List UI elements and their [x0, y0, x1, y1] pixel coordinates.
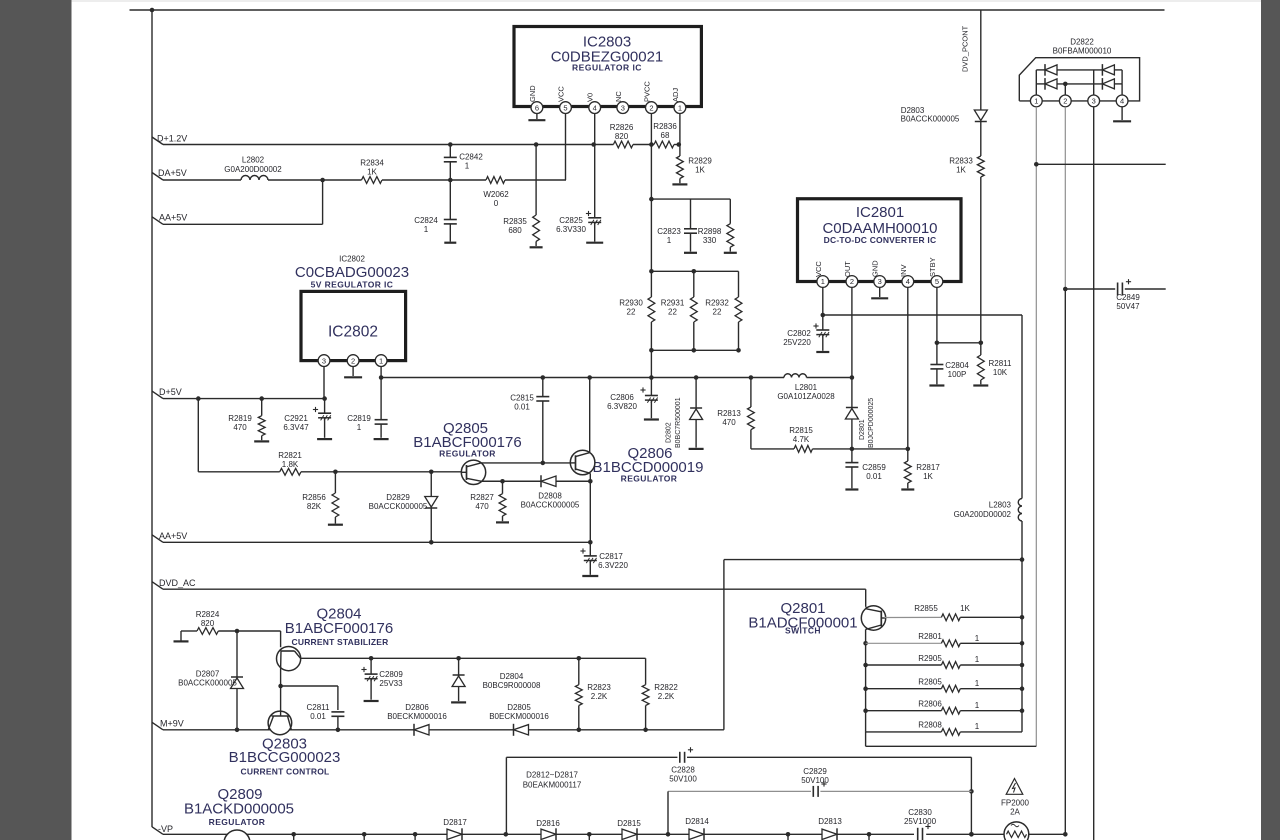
pin 3 IC2803 [617, 102, 629, 114]
svg-text:2.2K: 2.2K [591, 692, 608, 701]
svg-text:C2823: C2823 [657, 227, 681, 236]
svg-text:B0EAKM000117: B0EAKM000117 [523, 781, 582, 790]
diode D2808 [541, 476, 556, 486]
diode D2822-A1 [1045, 65, 1057, 75]
diode D2816 [541, 829, 556, 839]
svg-text:1: 1 [678, 103, 682, 112]
diode D2813 [822, 829, 837, 839]
svg-text:V0: V0 [586, 93, 595, 102]
capacitor C2806 [650, 378, 652, 396]
svg-text:1.8K: 1.8K [282, 460, 299, 469]
svg-text:B0ACCK000005: B0ACCK000005 [521, 501, 580, 510]
svg-text:C2815: C2815 [510, 394, 534, 403]
wire D2812 block right edge [970, 757, 972, 834]
pin 2 IC2801 [846, 276, 858, 288]
svg-text:G0A200D00002: G0A200D00002 [954, 510, 1012, 519]
svg-text:1: 1 [667, 236, 672, 245]
capacitor C2817 [589, 542, 591, 555]
wire IC2803 pin1 ADJ [679, 114, 681, 145]
svg-text:R2826: R2826 [610, 123, 634, 132]
svg-text:25V220: 25V220 [783, 338, 811, 347]
pin 3 D2822 [1088, 95, 1100, 107]
svg-text:C2802: C2802 [787, 329, 811, 338]
svg-text:0.01: 0.01 [310, 712, 326, 721]
svg-text:L2802: L2802 [242, 156, 265, 165]
svg-text:R2819: R2819 [228, 414, 252, 423]
svg-text:50V100: 50V100 [801, 776, 829, 785]
svg-text:CURRENT STABILIZER: CURRENT STABILIZER [292, 637, 389, 647]
svg-text:50V47: 50V47 [1116, 302, 1140, 311]
svg-text:B0JCPD000025: B0JCPD000025 [868, 398, 875, 448]
resistor R2826 [613, 141, 633, 148]
wire Q2805 collector line [481, 462, 570, 464]
wire D2822 pin3 vertical [1093, 107, 1095, 840]
svg-text:VCC: VCC [814, 261, 823, 277]
wire IC2802 pin1 down [380, 367, 382, 378]
fuse FP2000 element [1004, 822, 1029, 840]
pin 3 IC2802 [318, 355, 330, 367]
svg-text:4: 4 [593, 103, 597, 112]
resistor R2819 [261, 399, 263, 416]
svg-text:R2811: R2811 [989, 359, 1013, 368]
svg-text:-VP: -VP [158, 824, 173, 834]
node M+9V [152, 722, 163, 730]
svg-text:1: 1 [975, 679, 980, 688]
svg-text:1K: 1K [695, 166, 705, 175]
svg-text:R2905: R2905 [918, 654, 942, 663]
pin 1 D2822 [1030, 95, 1042, 107]
svg-text:6.3V330: 6.3V330 [556, 225, 586, 234]
wire top horizontal line [130, 9, 1165, 11]
resistor R2808 [866, 731, 942, 733]
svg-text:1: 1 [379, 356, 383, 365]
capacitor C2804 [936, 343, 938, 365]
wire D+5V branch to R2821 [197, 399, 199, 472]
node DVD_AC [152, 582, 163, 590]
svg-text:22: 22 [713, 308, 722, 317]
wire IC2802 pin3 down [323, 367, 325, 399]
svg-text:D2812~D2817: D2812~D2817 [526, 771, 578, 780]
svg-text:2: 2 [850, 277, 854, 286]
svg-text:5: 5 [563, 103, 567, 112]
svg-text:1: 1 [424, 225, 429, 234]
svg-text:CURRENT CONTROL: CURRENT CONTROL [241, 767, 330, 777]
svg-text:C2842: C2842 [459, 153, 483, 162]
svg-text:AA+5V: AA+5V [159, 213, 187, 223]
svg-text:PVCC: PVCC [642, 81, 651, 102]
wire IC2801 pin5 STBY down [936, 287, 938, 342]
svg-text:10K: 10K [993, 368, 1008, 377]
capacitor C2842 [449, 145, 451, 158]
capacitor C2823 [690, 199, 692, 229]
svg-text:R2834: R2834 [360, 159, 384, 168]
wire left vertical bus [151, 10, 153, 827]
pin 2 D2822 [1059, 95, 1071, 107]
wire bank right vertical [1021, 560, 1023, 732]
svg-text:6: 6 [535, 103, 539, 112]
inductor L2801 [784, 374, 807, 378]
wire IC2803 pin4 to D+1.2V [594, 114, 596, 145]
diode D2822-B2 [1102, 79, 1114, 89]
svg-text:1: 1 [821, 277, 825, 286]
node D+5V [152, 391, 163, 399]
svg-text:2.2K: 2.2K [658, 692, 675, 701]
svg-text:IC2802: IC2802 [339, 255, 365, 264]
pin 4 IC2803 [589, 102, 601, 114]
svg-text:C2806: C2806 [610, 393, 634, 402]
svg-text:R2827: R2827 [470, 493, 494, 502]
diode D2829 [430, 472, 432, 497]
wire emitter branch to C2811 [281, 685, 338, 687]
resistor R2823 [578, 658, 580, 684]
diode D2804 [458, 658, 460, 676]
svg-text:R2855: R2855 [914, 604, 938, 613]
svg-text:5: 5 [935, 277, 939, 286]
svg-text:820: 820 [201, 619, 215, 628]
capacitor C2815 [542, 378, 544, 397]
svg-text:C2811: C2811 [307, 703, 331, 712]
svg-text:IC2802: IC2802 [328, 324, 378, 341]
pin 4 D2822 [1116, 95, 1128, 107]
pin 1 IC2803 [674, 102, 686, 114]
wire D+1.2V rail [163, 144, 613, 146]
svg-text:B0BC9R000008: B0BC9R000008 [483, 681, 541, 690]
resistor R2931 [693, 271, 695, 297]
fuse FP2000 warning triangle [1006, 779, 1023, 795]
svg-text:D2802: D2802 [666, 422, 673, 443]
svg-text:2A: 2A [1010, 808, 1020, 817]
svg-text:3: 3 [322, 356, 326, 365]
svg-text:D+5V: D+5V [159, 387, 182, 397]
svg-text:M+9V: M+9V [160, 719, 184, 729]
svg-text:C0CBADG00023: C0CBADG00023 [295, 264, 409, 281]
svg-text:R2805: R2805 [918, 678, 942, 687]
capacitor C2829 [812, 786, 814, 797]
svg-text:R2835: R2835 [503, 217, 527, 226]
resistor R2801 [866, 642, 942, 644]
svg-text:R2930: R2930 [619, 299, 643, 308]
svg-text:5V REGULATOR IC: 5V REGULATOR IC [311, 280, 394, 290]
resistor R2833 [977, 156, 984, 177]
wire R2930 group top line [651, 270, 738, 272]
resistor R2898 [727, 224, 734, 248]
svg-text:D2805: D2805 [507, 703, 531, 712]
svg-text:50V100: 50V100 [669, 775, 697, 784]
transistor Q2803 [268, 711, 292, 735]
svg-text:1: 1 [975, 655, 980, 664]
wire inner lower line with C2829 [668, 790, 811, 792]
svg-text:D2822: D2822 [1070, 38, 1094, 47]
svg-text:IC2801: IC2801 [856, 204, 904, 221]
resistor W2062 (jumper) [486, 177, 505, 184]
wire Q2804 collector line [301, 657, 646, 659]
wire D2822 pin1 vertical [1035, 107, 1037, 747]
svg-text:R2829: R2829 [688, 157, 712, 166]
capacitor C2849 [1065, 288, 1115, 290]
svg-text:D2815: D2815 [617, 819, 641, 828]
wire R2815 to INV [813, 448, 908, 450]
svg-text:R2824: R2824 [196, 610, 220, 619]
svg-text:R2806: R2806 [918, 700, 942, 709]
svg-text:B0ACCK000005: B0ACCK000005 [178, 679, 237, 688]
svg-text:ADJ: ADJ [671, 88, 680, 102]
wire DVD_AC rail [163, 588, 866, 590]
node DA+5V [152, 173, 163, 181]
pin 1 IC2801 [817, 276, 829, 288]
svg-text:25V33: 25V33 [379, 679, 403, 688]
svg-text:22: 22 [668, 308, 677, 317]
svg-text:3: 3 [1092, 97, 1096, 106]
svg-text:68: 68 [661, 131, 670, 140]
svg-text:VCC: VCC [557, 86, 566, 102]
svg-text:4: 4 [1120, 97, 1124, 106]
svg-text:25V1000: 25V1000 [904, 817, 937, 826]
svg-text:1: 1 [357, 423, 362, 432]
svg-text:3: 3 [621, 103, 625, 112]
diode D2822-A2 [1102, 65, 1114, 75]
svg-text:L2803: L2803 [989, 501, 1012, 510]
svg-text:D2829: D2829 [386, 493, 410, 502]
svg-text:1K: 1K [367, 168, 377, 177]
svg-text:1: 1 [1034, 97, 1038, 106]
resistor R2930 [648, 297, 655, 322]
diode D2801 [851, 378, 853, 409]
svg-text:L2801: L2801 [795, 383, 818, 392]
svg-text:R2833: R2833 [949, 157, 973, 166]
resistor R2815 [794, 446, 813, 453]
resistor R2821 [280, 468, 301, 475]
wire bank bottom [865, 732, 867, 746]
svg-text:1: 1 [975, 701, 980, 710]
svg-text:R2817: R2817 [916, 463, 940, 472]
svg-text:6.3V220: 6.3V220 [598, 561, 628, 570]
junction top bus [150, 8, 155, 13]
svg-text:G0A200D00002: G0A200D00002 [224, 165, 282, 174]
wire -VP rail [163, 833, 447, 835]
wire Q2806 emitter down [589, 473, 591, 542]
wire stub right upper [1036, 163, 1165, 165]
capacitor C2921 [324, 399, 326, 414]
diode D2817 [447, 829, 462, 839]
ground IC2802 pin2 [352, 367, 354, 377]
wire IC2801 pin2 OUT down [851, 287, 853, 377]
svg-text:R2898: R2898 [698, 227, 722, 236]
pin 5 IC2803 [560, 102, 572, 114]
svg-text:GND: GND [528, 85, 537, 102]
right gray margin band [1261, 0, 1280, 840]
wire D2812 block left edge [505, 757, 507, 834]
resistor R2932 [738, 271, 740, 297]
resistor R2829 [679, 145, 681, 157]
wire R2824 to Q2804 base [218, 630, 280, 632]
ground D2822 pin4 [1121, 107, 1123, 120]
svg-text:4.7K: 4.7K [793, 435, 810, 444]
capacitor C2859 [851, 449, 853, 463]
svg-text:W2062: W2062 [483, 190, 509, 199]
wire Q2806 collector up [589, 378, 591, 453]
resistor R2856 [334, 472, 336, 493]
svg-text:C2825: C2825 [559, 216, 583, 225]
svg-text:D2816: D2816 [536, 819, 560, 828]
svg-text:B0BC7R500001: B0BC7R500001 [675, 397, 682, 448]
svg-text:2: 2 [649, 103, 653, 112]
svg-text:D2804: D2804 [500, 672, 524, 681]
svg-text:DC-TO-DC CONVERTER IC: DC-TO-DC CONVERTER IC [824, 235, 937, 245]
ground IC2803 pin6 [536, 114, 538, 120]
svg-text:R2822: R2822 [654, 683, 678, 692]
svg-text:D2806: D2806 [405, 703, 429, 712]
wire Q2804 emitter down [280, 670, 282, 711]
svg-text:OUT: OUT [843, 261, 852, 277]
left gray margin band [0, 0, 72, 840]
op-amp IC2801 dc-dc converter box [798, 199, 962, 282]
top light strip [72, 0, 1262, 2]
resistor R2834 [362, 177, 383, 184]
node AA+5V (lower) [152, 535, 163, 543]
ground IC2801 pin3 [879, 287, 881, 297]
svg-text:C2859: C2859 [862, 463, 886, 472]
wire Q2801 base vertical [865, 629, 867, 732]
svg-text:470: 470 [475, 502, 489, 511]
wire STBY branch [937, 342, 981, 344]
svg-text:REGULATOR: REGULATOR [621, 474, 678, 484]
inductor L2802 [241, 176, 268, 181]
svg-text:REGULATOR: REGULATOR [439, 449, 496, 459]
wire D2822 row B [1036, 83, 1045, 85]
resistor R2855 [884, 616, 941, 618]
svg-text:1: 1 [975, 634, 980, 643]
wire D+5V rail [163, 398, 325, 400]
svg-text:REGULATOR IC: REGULATOR IC [572, 63, 642, 73]
resistor R2817 [907, 449, 909, 461]
svg-text:D2801: D2801 [859, 419, 866, 440]
capacitor C2830 [917, 828, 919, 840]
svg-text:FP2000: FP2000 [1001, 799, 1030, 808]
svg-text:82K: 82K [307, 502, 322, 511]
pin 2 IC2802 [347, 355, 359, 367]
svg-text:R2823: R2823 [587, 683, 611, 692]
svg-text:22: 22 [627, 308, 636, 317]
pin 1 IC2802 [375, 355, 387, 367]
resistor R2824 [174, 640, 189, 642]
wire R2813 to R2815 [751, 448, 794, 450]
svg-text:R2931: R2931 [661, 299, 685, 308]
svg-text:B0ECKM000016: B0ECKM000016 [387, 712, 447, 721]
svg-text:AA+5V: AA+5V [159, 531, 187, 541]
wire R2821 to Q2805 [301, 471, 461, 473]
capacitor C2825 [594, 145, 596, 218]
svg-text:B1ACKD000005: B1ACKD000005 [184, 801, 294, 818]
resistor R2836 [654, 141, 674, 148]
svg-text:G0A101ZA0028: G0A101ZA0028 [777, 392, 835, 401]
svg-text:B0ECKM000016: B0ECKM000016 [489, 712, 549, 721]
wire AA+5V upper rail [163, 223, 323, 225]
svg-text:NC: NC [614, 91, 623, 102]
svg-text:C2828: C2828 [671, 766, 695, 775]
node AA+5V (upper) [152, 217, 163, 225]
resistor R2835 [535, 145, 537, 216]
svg-text:680: 680 [508, 226, 522, 235]
wire Q2805 emitter line [481, 480, 541, 482]
svg-text:STBY: STBY [928, 257, 937, 277]
svg-text:R2808: R2808 [918, 721, 942, 730]
diode D2815 [622, 829, 637, 839]
svg-text:R2932: R2932 [705, 299, 729, 308]
capacitor C2809 [370, 658, 372, 674]
node -VP [152, 827, 163, 835]
svg-text:B0ACCK000005: B0ACCK000005 [901, 115, 960, 124]
svg-text:R2836: R2836 [653, 122, 677, 131]
svg-text:R2856: R2856 [302, 493, 326, 502]
wire VCC net to L2803 [823, 314, 1022, 316]
svg-text:820: 820 [615, 132, 629, 141]
svg-text:C2829: C2829 [803, 767, 827, 776]
svg-text:0.01: 0.01 [514, 403, 530, 412]
diode D2806 [414, 725, 429, 735]
wire inner line drop [667, 791, 669, 834]
diode D2814 [689, 829, 704, 839]
svg-text:D2808: D2808 [538, 492, 562, 501]
svg-text:R2813: R2813 [717, 409, 741, 418]
capacitor C2819 [380, 378, 382, 420]
resistor R2905 [866, 664, 942, 666]
capacitor C2824 [449, 180, 451, 219]
diode D2802 [695, 378, 697, 410]
pin 4 IC2801 [902, 276, 914, 288]
svg-text:SWITCH: SWITCH [785, 626, 821, 636]
svg-text:D2817: D2817 [443, 818, 467, 827]
svg-text:0: 0 [494, 199, 499, 208]
svg-text:DVD_AC: DVD_AC [159, 578, 196, 588]
svg-text:C2921: C2921 [284, 414, 308, 423]
svg-text:B0ACCK000005: B0ACCK000005 [369, 502, 428, 511]
wire DA+5V rail [163, 179, 241, 181]
capacitor C2811 [331, 711, 344, 713]
svg-text:C2849: C2849 [1116, 293, 1140, 302]
pin 6 IC2803 [531, 102, 543, 114]
svg-text:C2819: C2819 [347, 414, 371, 423]
svg-text:470: 470 [233, 423, 247, 432]
capacitor C2802 [822, 315, 824, 330]
svg-text:DA+5V: DA+5V [158, 168, 187, 178]
svg-text:B1BCCG000023: B1BCCG000023 [229, 749, 341, 766]
svg-text:B1ABCF000176: B1ABCF000176 [285, 620, 393, 637]
svg-text:C2804: C2804 [945, 361, 969, 370]
svg-text:B0FBAM000010: B0FBAM000010 [1053, 47, 1112, 56]
svg-text:C2824: C2824 [414, 216, 438, 225]
svg-text:D+1.2V: D+1.2V [157, 134, 187, 144]
wire IC2801 pin1 VCC down [822, 287, 824, 315]
svg-text:1K: 1K [960, 604, 970, 613]
wire IC2801 pin4 INV down [907, 287, 909, 449]
wire +5V internal rail [381, 377, 784, 379]
op-amp IC2803 regulator box [514, 27, 701, 107]
svg-text:2: 2 [1063, 97, 1067, 106]
svg-text:1: 1 [975, 722, 980, 731]
resistor R2822 [645, 658, 647, 684]
svg-text:470: 470 [722, 418, 736, 427]
wire IC2803 pin2 PVCC vertical [650, 114, 652, 298]
svg-text:D2807: D2807 [196, 670, 220, 679]
pin 5 IC2801 [931, 276, 943, 288]
inductor L2803 [1018, 499, 1022, 522]
wire M+9V rail [163, 729, 414, 731]
junction PVCC branch [649, 197, 654, 202]
diode block D2812~D2817 top wire with C2828 [506, 756, 677, 758]
svg-text:C2830: C2830 [908, 808, 932, 817]
capacitor C2828 [688, 749, 693, 751]
svg-text:C2817: C2817 [599, 552, 623, 561]
